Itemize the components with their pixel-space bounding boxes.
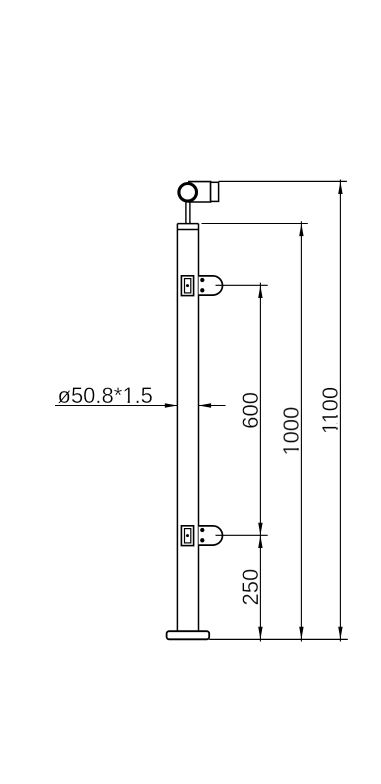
handrail end cap (211, 182, 219, 201)
dimension 250 line (259, 535, 261, 641)
dimension 1100 line (339, 180, 341, 642)
svg-text:600: 600 (238, 392, 263, 429)
svg-text:250: 250 (238, 569, 263, 606)
bottom glass clamp: D body (199, 526, 223, 545)
top extension line (handrail top) (219, 180, 347, 182)
handrail tube (horizontal) (188, 182, 211, 202)
top clamp extension line (216, 284, 268, 286)
diameter leader line left (55, 405, 177, 407)
svg-text:1100: 1100 (318, 387, 343, 434)
bottom clamp extension line (216, 534, 268, 536)
bottom glass clamp: screws (200, 528, 204, 532)
ground line (209, 638, 348, 640)
dimension 1000 line (300, 221, 302, 641)
saddle circle (elbow) (179, 184, 197, 202)
top glass clamp: D body (199, 276, 223, 295)
dimension 600 line (259, 283, 261, 536)
base plate (167, 631, 210, 639)
bottom glass clamp: back plate (181, 526, 193, 546)
svg-text:ø50.8*1.5: ø50.8*1.5 (58, 383, 153, 408)
post (vertical tube) (176, 224, 178, 632)
diameter leader line right (199, 405, 226, 407)
svg-text:1000: 1000 (279, 407, 304, 456)
stem below saddle (185, 202, 187, 224)
post cap weld line (177, 229, 198, 231)
top glass clamp: back plate screw dot (186, 284, 189, 287)
top glass clamp: screws (200, 278, 204, 282)
bottom glass clamp: back plate screw dot (186, 534, 189, 537)
extension line (post top) (202, 223, 308, 225)
top glass clamp: back plate (181, 276, 193, 296)
